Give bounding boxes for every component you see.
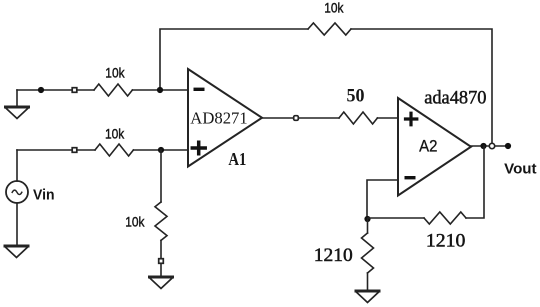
wire xyxy=(133,149,188,151)
svg-text:A2: A2 xyxy=(419,137,437,156)
wire A2 output xyxy=(471,145,508,147)
wire A1 output xyxy=(262,117,339,119)
wire xyxy=(160,264,162,277)
wire to A1 inverting input xyxy=(17,89,94,91)
svg-text:Vout: Vout xyxy=(504,161,536,178)
wire to A2 non-inverting input xyxy=(377,117,398,119)
wire Vin to node xyxy=(16,150,18,181)
wire feedback from output down xyxy=(466,146,484,218)
wire xyxy=(132,89,188,91)
svg-text:10k: 10k xyxy=(324,0,344,16)
svg-text:10k: 10k xyxy=(105,64,125,80)
ground xyxy=(356,291,379,303)
resistor 1210 to ground (vertical) xyxy=(362,233,374,273)
wire node to vertical resistor xyxy=(367,219,369,233)
terminal square xyxy=(159,259,164,264)
svg-text:10k: 10k xyxy=(105,126,125,142)
wire xyxy=(160,240,162,258)
resistor 10k to ground (vertical) xyxy=(155,202,167,240)
node junction xyxy=(158,147,164,153)
terminal square xyxy=(294,116,299,121)
node junction xyxy=(38,87,44,93)
wire top feedback left segment xyxy=(160,29,308,90)
resistor 1210 feedback xyxy=(424,212,466,224)
node junction xyxy=(480,143,486,149)
svg-text:AD8271: AD8271 xyxy=(190,108,247,127)
resistor 10k top feedback xyxy=(308,23,351,35)
ground xyxy=(6,90,29,119)
ground xyxy=(150,277,173,289)
wire A2 inverting input xyxy=(367,180,398,219)
svg-text:Vin: Vin xyxy=(33,187,55,204)
wire Vin to ground xyxy=(16,203,18,245)
wire top feedback right segment xyxy=(351,29,492,144)
terminal circle xyxy=(489,143,494,148)
wire feedback to inverting node xyxy=(368,217,425,219)
svg-text:A1: A1 xyxy=(228,149,246,169)
svg-text:1210: 1210 xyxy=(426,231,466,252)
svg-text:1210: 1210 xyxy=(314,245,353,266)
node Vout terminal xyxy=(505,143,511,149)
node junction xyxy=(157,87,163,93)
op-amp A1 xyxy=(188,69,262,167)
terminal square xyxy=(72,88,77,93)
resistor 10k input (to A1 non-inverting) xyxy=(95,144,133,156)
wire to A1 non-inverting input xyxy=(17,149,95,151)
wire node to vertical resistor xyxy=(160,150,162,202)
ground xyxy=(5,246,28,258)
svg-text:ada4870: ada4870 xyxy=(424,88,486,108)
op-amp A2 xyxy=(398,98,471,196)
resistor 50 xyxy=(339,112,377,124)
node junction xyxy=(364,216,370,222)
svg-text:50: 50 xyxy=(347,87,365,107)
svg-text:10k: 10k xyxy=(125,213,145,229)
resistor 10k input (to A1 inverting) xyxy=(94,84,132,96)
terminal square xyxy=(72,148,77,153)
wire xyxy=(367,273,369,290)
source Vin xyxy=(6,181,28,203)
